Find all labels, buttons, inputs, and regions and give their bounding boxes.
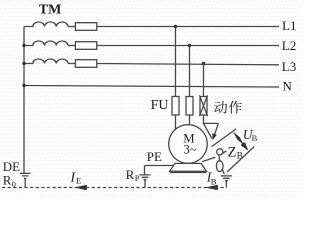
wire PE (motor frame to earth electrode) <box>145 165 174 167</box>
fault arrow onto motor frame <box>204 123 219 138</box>
wire: L1 drop to fuse FU1 <box>175 27 177 97</box>
svg-text:TM: TM <box>39 2 62 17</box>
wire: FU2 to motor <box>189 115 191 125</box>
wire N (neutral) <box>24 86 279 88</box>
current arrow IE <box>74 185 87 190</box>
junction L1/drop <box>174 25 177 28</box>
svg-text:L2: L2 <box>282 38 296 53</box>
svg-text:P: P <box>135 173 140 183</box>
junction on neutral bus at L3 winding <box>22 62 25 65</box>
svg-text:FU: FU <box>151 98 169 113</box>
wire: FU3 to fault point <box>204 115 219 123</box>
transformer winding W3 (phase L3 coil) <box>24 59 68 64</box>
transformer winding W2 (phase L2 coil) <box>24 41 68 46</box>
fuse FU2 <box>186 97 193 116</box>
transformer winding W1 (phase L1 coil) <box>24 22 68 27</box>
svg-text:PE: PE <box>147 149 162 164</box>
svg-text:L3: L3 <box>282 59 296 74</box>
wire L3 <box>97 64 279 65</box>
earth at person's feet <box>221 176 232 188</box>
touch voltage arrow UB <box>233 132 249 151</box>
junction on neutral bus at L2 winding <box>22 44 25 47</box>
svg-text:B: B <box>211 176 217 186</box>
junction on neutral bus at N <box>22 84 25 87</box>
earth electrode RP <box>139 166 150 188</box>
fuse FU1 <box>172 97 179 116</box>
person raised arm <box>221 151 227 155</box>
wire: earth return path (dashed) <box>2 187 226 189</box>
person arm touching motor <box>202 157 215 161</box>
person foot to earth <box>222 169 225 174</box>
blown mark X on FU3 <box>200 95 208 116</box>
wire: L3 drop to fuse FU3 <box>203 64 205 97</box>
svg-text:R: R <box>126 167 135 182</box>
person (body impedance ZB) head <box>217 149 223 155</box>
breaker contact on L2 (rect) <box>68 45 75 47</box>
wire L2 <box>97 45 279 47</box>
label 动作 (operates) <box>214 101 242 114</box>
junction L2/drop <box>188 44 191 47</box>
breaker contact on L3 (rect) <box>68 63 75 65</box>
svg-text:N: N <box>283 78 293 93</box>
person lower body <box>216 161 223 172</box>
potential line A (motor frame potential) <box>212 129 237 147</box>
svg-text:Z: Z <box>228 145 237 161</box>
svg-text:3~: 3~ <box>183 142 196 156</box>
current arrow IB <box>205 185 218 190</box>
svg-text:B: B <box>252 133 258 143</box>
fuse FU3 (blown) <box>200 97 207 116</box>
wire: transformer neutral bus (left vertical) <box>23 27 25 174</box>
svg-text:L1: L1 <box>282 18 296 33</box>
motor base pedestal <box>170 163 207 171</box>
wire L1 <box>97 26 279 28</box>
breaker contact on L1 (rect) <box>68 26 75 28</box>
earth electrode DE (transformer working earth) <box>20 173 31 187</box>
svg-text:R: R <box>3 173 12 188</box>
svg-text:E: E <box>76 176 81 186</box>
potential line B (ground potential) <box>227 147 254 172</box>
wire: FU1 to motor <box>175 115 177 130</box>
motor M 3~ <box>169 125 208 164</box>
wire: L2 drop to fuse FU2 <box>189 46 191 97</box>
person torso <box>218 155 221 161</box>
junction L3/drop <box>202 62 205 65</box>
